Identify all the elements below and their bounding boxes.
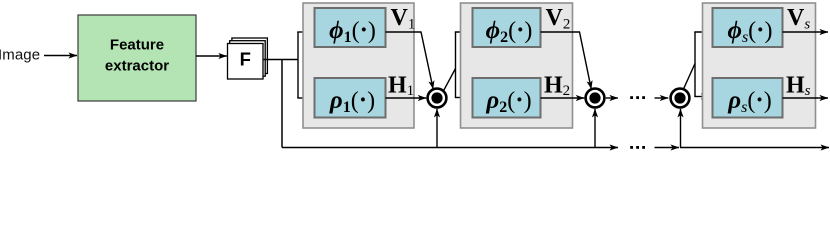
wire arrow into phi s [694, 31, 711, 33]
phi2 box [473, 8, 541, 47]
wire bottom rail segment 2 [655, 147, 680, 149]
wire arrow Hs output [783, 97, 829, 99]
wire dot-product 3 output diagonal [684, 64, 695, 89]
svg-text:Feature: Feature [110, 37, 164, 54]
svg-text:extractor: extractor [105, 58, 169, 75]
svg-text:F: F [240, 48, 251, 69]
wire arrow into phi2 [455, 31, 471, 33]
svg-text:ρ2(·): ρ2(·) [485, 87, 531, 116]
stage block 2 [461, 3, 573, 128]
wire arrow into phi1 [297, 31, 312, 33]
phi s box [713, 8, 783, 47]
wire F output [264, 59, 298, 61]
stage block 1 [303, 3, 414, 128]
svg-text:ϕs(·): ϕs(·) [727, 17, 772, 46]
wire rail arrow up into dot-product 1 [436, 109, 438, 148]
wire arrow into rho2 [455, 97, 471, 99]
wire branch vertical block2 input [455, 32, 457, 98]
phi1 box [315, 8, 386, 47]
ellipsis mid row [630, 96, 645, 99]
svg-text:ρ1(·): ρ1(·) [329, 87, 375, 116]
wire bottom rail segment 1 [282, 147, 618, 149]
wire H2 from rho2 to dot-product 2 [541, 97, 585, 99]
wire arrow dot-product 2 output [606, 97, 618, 99]
rho1 box [315, 78, 386, 118]
svg-text:ϕ1(·): ϕ1(·) [329, 17, 376, 46]
svg-text:ϕ2(·): ϕ2(·) [486, 17, 533, 46]
wire branch vertical block s input [694, 32, 696, 97]
dot-product operator 1 [428, 89, 447, 108]
wire arrow into rho s [694, 96, 709, 98]
wire H1 from rho1 to dot-product 1 [386, 97, 427, 99]
wire branch vertical block1 input [297, 32, 299, 98]
dot-product operator 3 [671, 89, 690, 108]
wire V1 from phi1 to dot-product 1 [386, 32, 434, 89]
svg-text:ρs(·): ρs(·) [727, 87, 771, 116]
wire arrow into dot-product 3 [655, 97, 669, 99]
wire dot-product 1 output diagonal [443, 69, 455, 92]
wire arrow Vs output [783, 31, 829, 33]
wire V2 from phi2 to dot-product 2 [541, 32, 592, 89]
wire arrow into rho1 [297, 97, 312, 99]
Feature extractor box [78, 15, 196, 101]
rho2 box [473, 78, 541, 118]
ellipsis bottom rail [630, 146, 645, 149]
svg-text:Image: Image [0, 47, 40, 64]
dot-product operator 2 [586, 89, 605, 108]
wire bottom rail segment 3 [680, 147, 829, 149]
feature-map stack F [228, 38, 268, 79]
wire rail arrow up into dot-product 3 [680, 109, 682, 148]
stage block s [703, 3, 816, 128]
wire arrow Image to Feature extractor [44, 55, 77, 57]
wire drop from F line to bottom rail [281, 60, 283, 148]
rho s box [713, 78, 783, 118]
wire arrow Feature extractor to F [196, 55, 227, 57]
wire rail arrow up into dot-product 2 [594, 109, 596, 148]
